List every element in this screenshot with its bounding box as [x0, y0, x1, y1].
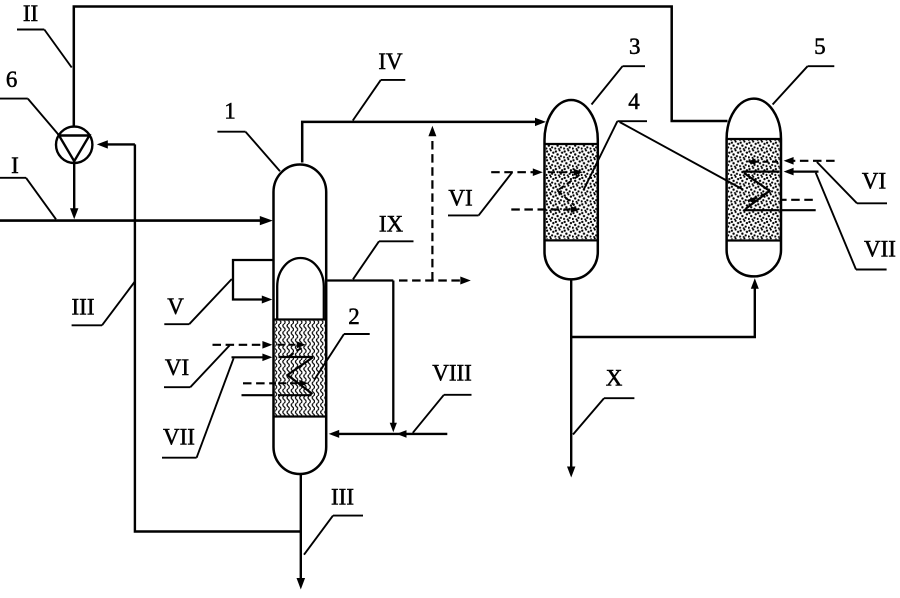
stream VII solid line to coil bottom [242, 394, 274, 396]
arrowhead VI solid at vessel 5 wall [784, 168, 794, 176]
line IX dashed continuation [399, 279, 462, 281]
line IX from column 1 [327, 279, 393, 281]
stream VI dashed into vessel 3 upper [491, 171, 533, 173]
vessel 3 bed top line [545, 143, 598, 145]
column 1 outer shell [274, 165, 327, 474]
vessel 5 catalyst bed stipple [728, 140, 780, 239]
svg-text:6: 6 [6, 67, 18, 92]
svg-text:IV: IV [378, 49, 403, 74]
vessel 5 bed bottom line [727, 239, 781, 241]
svg-text:I: I [11, 153, 19, 178]
svg-text:VI: VI [165, 355, 189, 380]
arrowhead VI dashed at column wall [262, 341, 272, 349]
svg-text:III: III [331, 485, 354, 510]
arrowhead inside vessel 3 bed lower [571, 206, 580, 213]
vessel 3 bottom outlet / stream X line [570, 279, 572, 468]
arrowhead inside bed 2 upper [297, 341, 306, 348]
vessel 3 shell [545, 100, 598, 279]
svg-text:VII: VII [864, 237, 896, 262]
arrowhead up into vessel 5 [751, 278, 759, 289]
arrowhead inside vessel 5 lower [747, 197, 756, 203]
arrowhead stream X down [567, 467, 575, 478]
dashed diagonal inside vessel 5 [754, 194, 766, 200]
svg-text:3: 3 [629, 34, 641, 59]
recycle inlet line into pump [108, 143, 135, 145]
stream VI upper dashed line into column 1 [213, 344, 264, 346]
arrowhead inside vessel 5 upper [747, 159, 756, 165]
vessel 3 catalyst bed stipple [546, 145, 597, 239]
label 4 second leader to vessel 5 [620, 122, 743, 190]
vessel 3 bed bottom line [545, 239, 598, 241]
arrowhead into pump [97, 140, 108, 148]
coil zigzag in bed 2 [288, 357, 314, 394]
svg-text:VIII: VIII [432, 361, 472, 386]
vertical line from IX down to VIII [392, 281, 394, 424]
stream VI dashed into vessel 5 right [794, 160, 835, 162]
dashed coil 4 zigzag in vessel 3 [558, 175, 580, 191]
arrowhead VIII into column 1 [329, 430, 340, 438]
svg-text:5: 5 [814, 34, 826, 59]
arrowhead down onto VIII line [390, 423, 397, 433]
svg-text:X: X [606, 366, 623, 391]
connector line vessel 3 bottom to vessel 5 bottom [571, 285, 755, 337]
coil bottom header in bed 2 [278, 394, 312, 396]
vessel 5 shell [727, 99, 781, 277]
side-stream V loop on column 1 [233, 260, 275, 300]
coil 4 in vessel 5: top header [743, 171, 780, 173]
svg-text:VII: VII [163, 425, 195, 450]
arrowhead V loop into column [262, 296, 273, 304]
pump outlet line down to feed line I [73, 163, 75, 210]
column 1 bottom outlet pipe [300, 474, 302, 580]
svg-text:III: III [72, 295, 95, 320]
stream VII dashed line vessel 5 right [781, 199, 813, 201]
dashed diagonal inside bed 2 [288, 348, 302, 357]
svg-text:V: V [167, 294, 184, 319]
coil 4 zigzag in vessel 5 [744, 173, 770, 209]
arrowhead dashed line up into IV [428, 126, 436, 137]
vessel 5 bed top line [727, 138, 781, 140]
svg-text:II: II [23, 1, 38, 26]
arrowhead IX dashed right [460, 277, 471, 285]
arrowhead stream III bottom [297, 578, 306, 590]
stream dashed into vessel 3 lower [511, 208, 570, 210]
arrowhead inside vessel 3 bed upper [574, 169, 583, 176]
arrowhead VI solid at column wall [262, 354, 272, 362]
pump 6 impeller triangle [59, 136, 89, 162]
arrowhead pump outlet onto line I [70, 208, 78, 219]
stream VI solid line into column 1 [232, 356, 264, 358]
svg-text:1: 1 [224, 98, 236, 123]
svg-text:VI: VI [862, 169, 886, 194]
stream VIII line [333, 433, 448, 435]
dashed continuation inside bed 2 lower [279, 382, 300, 384]
arrowhead line IV into vessel 3 [535, 118, 546, 126]
svg-text:4: 4 [628, 89, 640, 114]
stream VII solid line vessel 5 right [782, 209, 816, 211]
column 1 inner dome head [277, 258, 324, 320]
dashed continuation inside vessel 3 bed [548, 171, 574, 173]
arrowhead at vessel 3 wall [533, 168, 543, 176]
dashed continuation inside bed 2 [278, 344, 298, 346]
heat exchange coil in bed 2: top header [279, 356, 314, 358]
dashed steam trace inside vessel 5 bed [755, 161, 778, 163]
arrowhead line I into column 1 [260, 216, 273, 225]
pump 6 circle [56, 127, 92, 163]
feed line I [0, 219, 262, 222]
svg-text:2: 2 [348, 304, 360, 329]
arrowhead VI dashed at vessel 5 wall [784, 157, 794, 165]
stream II pipe: top loop from overhead down to pump [74, 7, 728, 127]
arrowhead inside bed 2 lower [299, 380, 308, 387]
stream VI solid into vessel 5 right [794, 171, 819, 173]
svg-text:VI: VI [448, 186, 472, 211]
bed 2 bottom boundary line [274, 415, 327, 417]
bed 2 top boundary line [274, 318, 327, 320]
dashed vapor line IX to IV junction [431, 138, 433, 281]
arrowhead VIII mid pointing left [397, 430, 407, 438]
catalyst bed 2 wavy fill [275, 321, 325, 416]
stream III recycle line: down, across bottom, to column outlet [135, 144, 302, 531]
svg-text:IX: IX [379, 212, 404, 237]
stream VII dashed line into bed 2 [243, 382, 276, 384]
coil 4 bottom header in vessel 5 [744, 209, 780, 211]
overhead riser and line IV to vessel 3 [302, 122, 536, 163]
